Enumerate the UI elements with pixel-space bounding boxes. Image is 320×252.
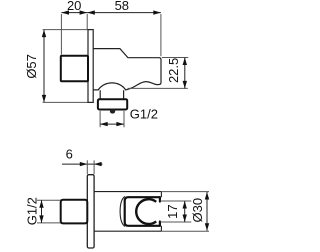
arrow bottom of 22.5 [183, 81, 187, 89]
extension line top of 22.5 [162, 57, 188, 59]
arrow bottom of G1/2 inlet dim [39, 215, 43, 223]
plan view: wall plate bar [87, 175, 94, 248]
arrow bottom of D30 [205, 223, 209, 231]
svg-text:Ø57: Ø57 [24, 54, 39, 79]
dimension line 17 [184, 201, 186, 222]
side view: outlet nipple tip [110, 110, 115, 114]
dimension line G1/2 inlet [41, 200, 43, 223]
arrow left of dim 20 [61, 10, 69, 14]
side view: horizontal dimension line 20/58 [61, 12, 160, 14]
extension line right of outlet G1/2 [123, 111, 125, 127]
plan view: cup C ring [136, 199, 156, 224]
arrow right of outlet dim [116, 122, 124, 126]
extension line top of G1/2 inlet [37, 199, 61, 201]
plan view: dimension line 6 with leader [62, 163, 103, 165]
plan view: cup prong tip bottom [159, 222, 161, 226]
extension line bottom of 22.5 [128, 87, 188, 89]
extension line bottom of D30 [161, 230, 209, 232]
svg-text:22.5: 22.5 [166, 58, 181, 83]
arrow top of 22.5 [183, 58, 187, 66]
extension line top of D30 [161, 191, 209, 193]
plan view: cup prong tip top [159, 197, 161, 201]
plan view: G1/2 inlet block [61, 200, 88, 224]
plan view: rounded nose arc of holder [120, 196, 125, 226]
extension line bottom of D57 [43, 101, 88, 103]
arrow left of dim 58 [87, 10, 95, 14]
vertical dimension line D57 [43, 30, 45, 103]
side view: G1/2 inlet nipple square [61, 56, 88, 81]
arrow bottom of D57 [42, 95, 46, 103]
extension line bottom of G1/2 inlet [37, 222, 61, 224]
extension line left of outlet G1/2 [99, 111, 101, 127]
arrow left of outlet dim [100, 122, 108, 126]
arrow top of D57 [42, 30, 46, 37]
arrow top of G1/2 inlet dim [39, 200, 43, 208]
extension line left of 6 [86, 160, 88, 174]
svg-text:Ø30: Ø30 [190, 198, 205, 223]
extension line top of D57 [43, 29, 88, 31]
side view: outlet nut block [98, 99, 127, 109]
extension line at x=87.2 [86, 14, 88, 29]
side view: wall plate (escutcheon edge-on) [88, 30, 93, 103]
dimension line outlet G1/2 [100, 123, 124, 125]
arrow right of dim 20 [80, 10, 88, 14]
arrow right of dim 6 [94, 162, 102, 166]
side view: outlet collar left line [99, 90, 101, 99]
arrow bottom of 17 [183, 215, 187, 223]
svg-text:20: 20 [67, 0, 81, 13]
extension line top of 17 [161, 200, 192, 202]
extension line at x=61.4 [60, 14, 62, 55]
svg-text:G1/2: G1/2 [130, 107, 158, 122]
extension line bottom of 17 [161, 221, 192, 223]
arrow top of D30 [205, 192, 209, 200]
arrow right of dim 58 [153, 10, 161, 14]
svg-text:58: 58 [115, 0, 129, 13]
extension line right of 6 [93, 160, 95, 174]
dimension line 22.5 [184, 58, 186, 89]
dimension line D30 [206, 192, 208, 231]
arrow top of 17 [183, 201, 187, 209]
extension line at x=160.9 [160, 14, 162, 56]
svg-text:17: 17 [165, 204, 180, 218]
svg-text:6: 6 [66, 147, 73, 162]
arrow left of dim 6 [80, 162, 88, 166]
plan view: cradle cup outline [125, 197, 160, 226]
side view: outlet collar right line [123, 90, 125, 99]
svg-text:G1/2: G1/2 [25, 197, 40, 225]
side view: holder body outline [93, 49, 161, 90]
plan view: body tube [94, 192, 161, 232]
